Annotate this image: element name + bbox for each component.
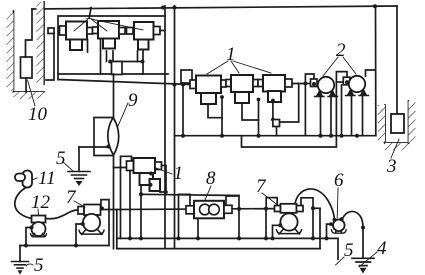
tank wall right (hatched) [43, 2, 45, 84]
wire pump7R out link [313, 207, 320, 209]
wire V3 mid drop [137, 51, 139, 62]
node valveX tab top [130, 161, 134, 165]
leader label1 to V2 [91, 19, 107, 31]
svg-text:10: 10 [28, 104, 48, 125]
valve V3 lower square [138, 40, 149, 50]
wire V2 right drop [112, 51, 114, 62]
node pump6 right top [339, 217, 343, 221]
leader 7 right [262, 193, 279, 206]
valve W3 body [263, 75, 285, 92]
node valveX loop [164, 190, 168, 194]
pump 7R circle [280, 213, 297, 230]
node W1 top [220, 95, 224, 99]
node pumpB sq [340, 134, 344, 138]
node motor8 bracket [177, 236, 181, 240]
node pumpB a [355, 134, 359, 138]
pump 6 circle [333, 220, 345, 232]
wire pressure line y194 [141, 194, 239, 195]
wire group2 bottom rail [175, 135, 376, 137]
valve W2-W3 tab b [258, 80, 263, 87]
wire rail start riser [116, 210, 118, 249]
handpiece 11 side knob [15, 174, 25, 182]
node pump 2B square [345, 80, 349, 84]
node W2 top [257, 98, 261, 102]
valve W3 lower square [268, 91, 281, 102]
wire gnd5 mid drop [78, 147, 80, 171]
accumulator 3 body [391, 114, 404, 133]
wire valveX tab drop [129, 171, 131, 239]
node group2 b [181, 83, 185, 87]
wire rail A [117, 238, 338, 259]
valve V3 body [134, 22, 154, 40]
wire filter 10 tail [25, 78, 27, 92]
wire railC gnd drop [19, 246, 21, 262]
leader label1 to V1 [74, 19, 88, 31]
valve W1-W2 tab a [221, 80, 226, 87]
pump 7R right tab [297, 206, 304, 212]
wire bottom rail C [20, 245, 109, 247]
wire V2 left drop [100, 39, 102, 75]
pump 2B circle [349, 76, 365, 92]
pump 2B base [346, 95, 369, 97]
node top rail junction A [161, 6, 165, 10]
pump 12 circle [32, 222, 46, 236]
filter 10 body [21, 57, 33, 78]
valve V2-V3 tab b [127, 28, 134, 35]
leader 1g2 to W3 [233, 61, 271, 73]
node pump7R in [264, 207, 268, 211]
wire lens feed [113, 74, 115, 118]
wire pump7L n-loop [101, 200, 109, 245]
nozzle 9 lens body [108, 118, 119, 156]
valve X lower square a [140, 173, 154, 185]
node valveX drain [139, 192, 143, 196]
valve W1 left tab [190, 80, 196, 89]
wire W2 drop vertical [258, 99, 260, 136]
ground 5 mid [68, 172, 90, 187]
motor 8 left bracket [179, 194, 191, 238]
tank 3 left wall [384, 105, 386, 143]
pump 2B square [343, 77, 350, 85]
tank wall left (hatched) [13, 11, 15, 92]
wire lens drop to rail B [113, 168, 115, 249]
pump 6 mount [332, 230, 347, 233]
node pumpA b [329, 134, 333, 138]
svg-text:9: 9 [128, 90, 138, 111]
leader 6 [336, 188, 339, 218]
node pump6 left top [332, 218, 336, 222]
wire motor8 suction rail [117, 208, 275, 211]
node W3 block top [271, 118, 275, 122]
orifice block under link [112, 62, 123, 75]
node motor8 right drop rail [237, 236, 241, 240]
leader 1g2 to W2 [231, 61, 239, 73]
wire motor8 right drop [238, 209, 240, 239]
wire group2 left drop [182, 83, 184, 136]
pump 2A base [315, 96, 338, 98]
motor 8 gear circle b [209, 204, 220, 215]
valve W3 right tab [285, 79, 292, 87]
node gnd4 top [361, 226, 365, 230]
leader label1 to V3 [91, 19, 143, 30]
pump 12 mount [31, 234, 47, 237]
svg-text:5: 5 [344, 240, 354, 261]
ground 5 bottom-left [12, 262, 29, 275]
node top rail junction C [373, 4, 377, 8]
wire pumpA n-loop riser [305, 74, 314, 136]
handpiece 11 body [23, 171, 33, 188]
valve W2 lower square [235, 92, 249, 103]
leader 12 [37, 209, 40, 216]
node railC 12 [24, 244, 28, 248]
svg-text:3: 3 [386, 156, 397, 177]
valve W1-W2 tab b [226, 80, 231, 87]
pump 6 bracket [327, 224, 331, 238]
tank 3 bottom [385, 142, 409, 144]
node pumpA a [319, 134, 323, 138]
wire top rail [32, 6, 397, 9]
leader label 9 [118, 103, 128, 126]
valve V1 body [66, 22, 87, 40]
wire cross link y61 [112, 61, 144, 63]
wire pump7R bracket [273, 225, 281, 238]
node motor8 drop [196, 236, 200, 240]
pump 7R top block [281, 204, 297, 213]
valve group2 left rect [181, 70, 192, 83]
valve V1-V2 tab b [93, 27, 99, 34]
wire pump7L bracket [76, 224, 83, 246]
svg-text:1: 1 [174, 163, 184, 184]
valve V2-V3 tab a [119, 28, 125, 35]
wire rail B [117, 248, 320, 250]
wire pumpB n-loop riser [336, 72, 347, 136]
wire filter 10 suction pipe [26, 9, 33, 57]
pump 2A mount [317, 91, 336, 97]
wire pumpB drop b [362, 96, 364, 136]
valve V1 left nub [48, 28, 54, 34]
wire arc 6 to gnd4 [343, 211, 364, 227]
svg-text:11: 11 [38, 168, 56, 189]
wire to mid ground [79, 146, 108, 148]
motor 8 gear circle a [200, 204, 211, 215]
node drop313 railA [311, 236, 315, 240]
node at 113,61 [108, 60, 112, 64]
node W3 sq [271, 99, 275, 103]
valve group1 enclosure top [58, 16, 165, 80]
node valveX b [149, 183, 153, 187]
wire W2 drop [242, 103, 259, 120]
wire V1 stub [87, 40, 89, 53]
node tab drop rail [128, 236, 132, 240]
wire lens to valveX [114, 155, 134, 168]
wire W3 side branch [280, 84, 299, 123]
node top rail junction B [173, 6, 177, 10]
node W1 rail [220, 134, 224, 138]
pump 7R mount [277, 230, 302, 235]
motor 8 right tab [224, 205, 232, 213]
wire valve V1 pilot to tank [46, 33, 54, 80]
valve V3 right tab [154, 27, 161, 35]
svg-text:4: 4 [377, 238, 387, 259]
node valveX drain rail [139, 236, 143, 240]
valve V2 body [98, 21, 119, 39]
tank 3 right wall [408, 101, 410, 143]
wire W3 block to rail [276, 127, 278, 136]
svg-text:6: 6 [334, 170, 344, 191]
leader 5 mid [63, 162, 73, 171]
wire drop 313 to railA [312, 208, 314, 238]
wire lens bypass loop [94, 118, 114, 156]
wire long vertical from top rail [174, 6, 176, 249]
wire pump7R in drop [265, 209, 267, 239]
wire pumpA drop a [320, 97, 322, 136]
wire feed valveX tab from rail A riser [121, 156, 132, 238]
wire arc 7R to 6 [295, 189, 334, 219]
wire pump7R right n-loop [301, 198, 313, 209]
leader 5 bottom-left [27, 264, 34, 266]
node pump7L right [100, 207, 104, 211]
pump 2A circle [318, 77, 334, 93]
ground 4 [352, 258, 374, 273]
wire W3 to pumps [292, 83, 311, 85]
pump 12 top block [32, 216, 46, 223]
node at 142,61 [141, 60, 145, 64]
leader 2 to pumpB [343, 57, 356, 74]
wire pumpB square drop [341, 85, 343, 136]
wire pumpB drop a [351, 96, 353, 136]
valve W2-W3 tab a [253, 80, 258, 87]
wire gnd4 drop [362, 228, 364, 259]
pump 7L left tab [78, 207, 84, 215]
valve V1 lower square [70, 40, 82, 51]
wire motor8 drop [197, 218, 199, 238]
leader 2 to pumpA [323, 57, 338, 76]
pump 7R left tab [275, 206, 281, 212]
node 7R bracket railA [271, 236, 275, 240]
tank bottom (hatched) [14, 91, 45, 93]
valve W1 body [196, 76, 221, 94]
valve V2 lower square [103, 39, 115, 49]
valve W1 lower square [201, 93, 216, 104]
pump 7L mount [79, 230, 104, 235]
wire pumpB feed from top [375, 6, 377, 136]
node pump feed [303, 82, 307, 86]
leader 8 [205, 186, 211, 200]
wire pumpA drop b [330, 97, 332, 136]
wire V3 drop [142, 50, 144, 75]
node pump7R circle left [278, 223, 282, 227]
valve X body [134, 158, 156, 173]
wire V2 mid drop [106, 51, 108, 62]
motor 8 left tab [186, 206, 194, 214]
wire group1 bottom rail [58, 73, 168, 75]
wire valveX right loop [160, 166, 166, 193]
motor 8 body [194, 201, 224, 219]
valve V1-V2 tab a [87, 28, 93, 35]
node pump 2A square [312, 82, 316, 86]
wire top right corner drop [396, 6, 398, 114]
node pump6 circle left [329, 222, 333, 226]
valve X right tab [155, 162, 162, 170]
svg-text:5: 5 [34, 255, 44, 275]
motor 8 right bracket [226, 196, 239, 210]
valve W2 body [231, 75, 253, 92]
node pump6 bracket [325, 236, 329, 240]
wire group1 outer bottom rail [58, 80, 190, 85]
leader 3 [391, 139, 399, 158]
svg-text:7: 7 [66, 187, 77, 208]
pump 7L circle [83, 214, 100, 231]
node group2 a [173, 83, 177, 87]
wire valveX drain drop [140, 185, 142, 238]
node pump7L circle left [81, 222, 85, 226]
leader 4 [359, 252, 377, 267]
valve X left tab [127, 161, 136, 171]
wire pumpB link [336, 81, 343, 83]
node 7R in drop [264, 236, 268, 240]
svg-text:5: 5 [56, 148, 66, 169]
node motor8 right [237, 207, 241, 211]
wire V3 tab link [160, 30, 165, 32]
valve X lower square b [150, 179, 161, 191]
leader 11 [32, 178, 37, 180]
pump 7L top block [84, 205, 101, 216]
leader 1g2 to W1 [207, 61, 228, 74]
wire W1 drop vertical [221, 97, 223, 136]
pump 2B mount [348, 90, 367, 96]
wire 12 to pump7L curve [46, 210, 79, 219]
svg-text:12: 12 [31, 192, 51, 213]
leader 5 bottom-right [336, 257, 345, 265]
wire W3 drop [272, 102, 274, 120]
wire pump7L out to rail start [102, 209, 117, 211]
wire group1 right vertical [164, 6, 166, 249]
node pump7R out [311, 206, 315, 210]
node lens-gnd [107, 145, 111, 149]
node railC 7L [74, 244, 78, 248]
svg-text:7: 7 [256, 176, 267, 197]
wire drain from W2 [242, 136, 337, 147]
leader 7 left [74, 201, 85, 207]
wire drop 320 to railB [319, 208, 321, 248]
wire W1 drop [208, 104, 222, 118]
leader label 10 [28, 80, 36, 106]
node pump12 left [30, 226, 34, 230]
leader 1 valveX [156, 168, 172, 174]
node group2 rail [181, 134, 185, 138]
wire pump12 drop [26, 228, 32, 246]
valve V1 left tab [60, 26, 67, 35]
wire 11 to 12 curve [15, 188, 32, 219]
node valveX a [149, 172, 153, 176]
wire pump7R left n-loop [266, 198, 277, 209]
check block W3 [273, 120, 280, 127]
wire pumpB feed branch [366, 70, 376, 76]
node W2b rail [257, 134, 261, 138]
pump 2A square [311, 79, 318, 87]
